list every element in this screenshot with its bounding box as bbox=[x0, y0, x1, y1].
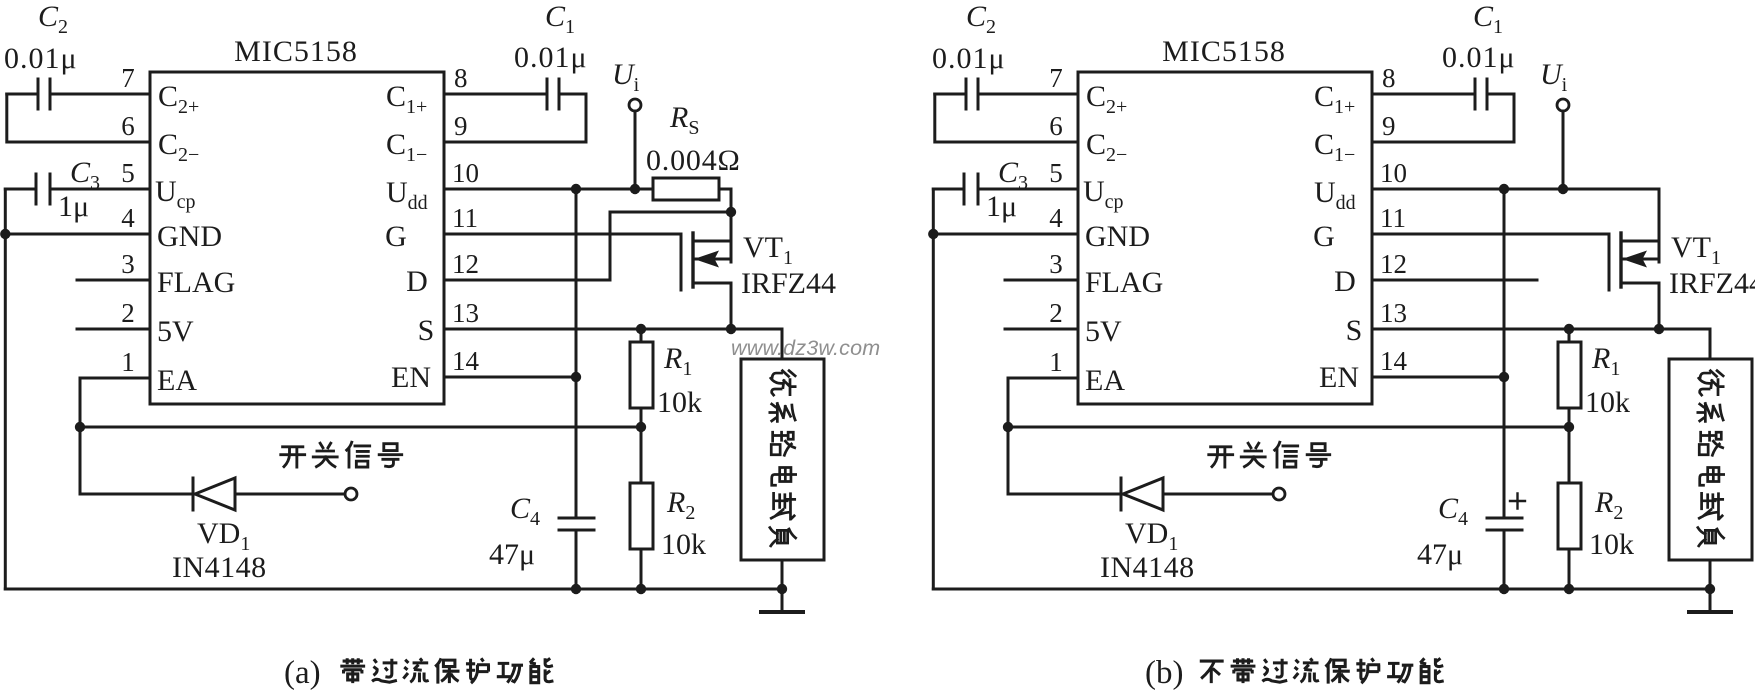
VT1 drain stub bbox=[693, 212, 731, 262]
wire load to rail bbox=[781, 560, 784, 589]
wire S line to load bbox=[1709, 329, 1712, 359]
svg-text:47μ: 47μ bbox=[1417, 538, 1463, 571]
wire C2 loop to pin 6 bbox=[935, 94, 1078, 142]
pin 12 D line bbox=[444, 279, 610, 282]
svg-text:5V: 5V bbox=[1085, 315, 1122, 348]
capacitor C4 with vertical wire bbox=[559, 189, 594, 589]
transistor Q2: MOSFET VT1 gate bar bbox=[1608, 234, 1611, 290]
svg-text:C1: C1 bbox=[1473, 0, 1503, 38]
capacitor C4 with vertical wire bbox=[1487, 189, 1522, 589]
svg-text:8: 8 bbox=[1382, 63, 1396, 93]
node S-R1 junction bbox=[636, 324, 646, 334]
pin 3 stub bbox=[1005, 279, 1078, 282]
svg-text:S: S bbox=[1346, 314, 1363, 347]
wire switching signal line bbox=[80, 426, 641, 429]
wire EA node down to diode bbox=[1008, 427, 1121, 494]
terminal switching signal bbox=[1273, 488, 1285, 500]
svg-text:C4: C4 bbox=[510, 492, 540, 530]
pin 7 stub bbox=[978, 93, 1078, 96]
pin 12 D stub bbox=[1372, 279, 1537, 282]
resistor R2 bbox=[640, 427, 643, 483]
svg-text:5: 5 bbox=[121, 158, 135, 188]
resistor R1 bbox=[1568, 329, 1571, 342]
resistor RS bbox=[653, 178, 719, 200]
svg-text:C4: C4 bbox=[1438, 492, 1468, 530]
capacitor C3 bbox=[933, 174, 1078, 204]
svg-text:Ui: Ui bbox=[1540, 58, 1568, 96]
svg-text:0.01μ: 0.01μ bbox=[1442, 41, 1516, 74]
svg-text:C1+: C1+ bbox=[1314, 80, 1355, 118]
svg-text:EN: EN bbox=[391, 361, 431, 394]
svg-text:FLAG: FLAG bbox=[157, 266, 235, 299]
svg-text:13: 13 bbox=[1380, 298, 1407, 328]
wire Ui down to Udd rail bbox=[1562, 111, 1565, 189]
svg-text:5: 5 bbox=[1049, 158, 1063, 188]
svg-text:14: 14 bbox=[1380, 346, 1408, 376]
svg-text:10k: 10k bbox=[661, 528, 706, 561]
node EN-C4 junction bbox=[571, 372, 581, 382]
svg-text:0.01μ: 0.01μ bbox=[932, 42, 1006, 75]
svg-text:R1: R1 bbox=[663, 342, 692, 380]
ground bbox=[781, 589, 784, 612]
svg-text:EA: EA bbox=[1085, 364, 1125, 397]
svg-text:IRFZ44: IRFZ44 bbox=[741, 267, 836, 300]
svg-text:VD1: VD1 bbox=[197, 517, 250, 555]
svg-text:12: 12 bbox=[452, 249, 479, 279]
svg-text:R1: R1 bbox=[1591, 342, 1620, 380]
op-amp U2: MIC5158 IC body bbox=[1078, 72, 1372, 404]
node C4-rail junction bbox=[571, 584, 581, 594]
resistor R1 bbox=[640, 329, 643, 342]
ground bbox=[1709, 589, 1712, 612]
diode VD2 bbox=[1120, 478, 1123, 510]
op-amp U1: MIC5158 IC body bbox=[150, 72, 444, 404]
pin 3 stub bbox=[77, 279, 150, 282]
svg-text:VD1: VD1 bbox=[1125, 517, 1178, 555]
transistor Q1: MOSFET VT1 gate bar bbox=[680, 234, 683, 290]
svg-text:C1−: C1− bbox=[386, 128, 427, 166]
node EA junction bbox=[75, 422, 85, 432]
node source-S junction bbox=[1654, 324, 1664, 334]
svg-text:10k: 10k bbox=[1589, 528, 1634, 561]
pin 13 S line bbox=[1372, 328, 1710, 331]
svg-text:IN4148: IN4148 bbox=[1100, 551, 1195, 584]
input terminal Ui bbox=[629, 99, 641, 111]
svg-text:4: 4 bbox=[1049, 203, 1063, 233]
svg-text:C1+: C1+ bbox=[386, 80, 427, 118]
svg-text:7: 7 bbox=[1049, 63, 1063, 93]
svg-text:MIC5158: MIC5158 bbox=[1162, 35, 1286, 68]
pin 1 EA wire bbox=[80, 378, 150, 427]
svg-text:GND: GND bbox=[157, 220, 222, 253]
node load-rail junction bbox=[777, 584, 787, 594]
capacitor C1 bbox=[1475, 79, 1514, 109]
svg-text:R2: R2 bbox=[1594, 486, 1623, 524]
wire EA node down to diode bbox=[80, 427, 193, 494]
polarity plus sign of C4 bbox=[1510, 494, 1525, 509]
svg-text:14: 14 bbox=[452, 346, 480, 376]
svg-text:10k: 10k bbox=[657, 386, 702, 419]
svg-text:Udd: Udd bbox=[386, 176, 428, 214]
node EA junction bbox=[1003, 422, 1013, 432]
svg-text:10: 10 bbox=[452, 158, 479, 188]
capacitor C2 bbox=[7, 79, 50, 109]
wire C1 loop to pin 9 bbox=[444, 94, 586, 142]
svg-text:2: 2 bbox=[1049, 298, 1063, 328]
VT1 channel bar bbox=[691, 233, 694, 287]
node S-R1 junction bbox=[1564, 324, 1574, 334]
wire Rs to drain node bbox=[719, 189, 731, 212]
node source-S junction bbox=[726, 324, 736, 334]
svg-text:Ui: Ui bbox=[612, 58, 640, 96]
svg-text:3: 3 bbox=[1049, 249, 1063, 279]
svg-text:C3: C3 bbox=[998, 156, 1028, 194]
svg-text:IN4148: IN4148 bbox=[172, 551, 267, 584]
svg-text:EN: EN bbox=[1319, 361, 1359, 394]
node GND-left junction bbox=[928, 229, 938, 239]
pin 11 G line bbox=[1372, 233, 1609, 236]
svg-text:(b): (b) bbox=[1145, 655, 1183, 691]
svg-text:www.dz3w.com: www.dz3w.com bbox=[731, 336, 880, 360]
wire bottom rail bbox=[5, 588, 782, 591]
svg-text:RS: RS bbox=[669, 101, 699, 139]
svg-text:C2+: C2+ bbox=[1086, 80, 1127, 118]
svg-text:C1−: C1− bbox=[1314, 128, 1355, 166]
pin 2 stub bbox=[1005, 328, 1078, 331]
node Ui-Udd junction bbox=[630, 184, 640, 194]
svg-text:10: 10 bbox=[1380, 158, 1407, 188]
svg-text:GND: GND bbox=[1085, 220, 1150, 253]
pin 14 EN line bbox=[1372, 376, 1504, 379]
node Udd-C4 junction bbox=[1499, 184, 1509, 194]
svg-text:Ucp: Ucp bbox=[155, 175, 196, 213]
resistor R2 bbox=[1568, 427, 1571, 483]
svg-text:0.01μ: 0.01μ bbox=[514, 41, 588, 74]
LEFT CIRCUIT (a) bbox=[0, 0, 836, 612]
terminal switching signal bbox=[345, 488, 357, 500]
svg-text:C2: C2 bbox=[966, 0, 996, 38]
VT1 body stub with arrow bbox=[1621, 258, 1659, 261]
svg-text:C2−: C2− bbox=[1086, 128, 1127, 166]
capacitor C1 bbox=[547, 79, 586, 109]
diode VD1 bbox=[192, 478, 195, 510]
svg-text:8: 8 bbox=[454, 63, 468, 93]
wire Ui down to Udd rail bbox=[634, 111, 637, 189]
svg-text:11: 11 bbox=[1380, 203, 1406, 233]
svg-text:0.01μ: 0.01μ bbox=[4, 42, 78, 75]
pin 14 EN line bbox=[444, 376, 576, 379]
wire C3 to ground node bbox=[932, 189, 935, 234]
svg-text:1: 1 bbox=[1049, 347, 1063, 377]
wire C3 to ground node bbox=[4, 189, 7, 234]
svg-text:G: G bbox=[1313, 220, 1335, 253]
wire Udd to Rs bbox=[576, 188, 653, 191]
input terminal Ui bbox=[1557, 99, 1569, 111]
svg-text:Udd: Udd bbox=[1314, 176, 1356, 214]
svg-text:D: D bbox=[406, 265, 428, 298]
svg-text:VT1: VT1 bbox=[1671, 231, 1721, 269]
pin 7 stub bbox=[50, 93, 150, 96]
svg-text:9: 9 bbox=[1382, 111, 1396, 141]
svg-text:10k: 10k bbox=[1585, 386, 1630, 419]
node R2-rail junction bbox=[1564, 584, 1574, 594]
svg-text:4: 4 bbox=[121, 203, 135, 233]
svg-text:FLAG: FLAG bbox=[1085, 266, 1163, 299]
svg-text:EA: EA bbox=[157, 364, 197, 397]
capacitor C2 bbox=[935, 79, 978, 109]
svg-text:MIC5158: MIC5158 bbox=[234, 35, 358, 68]
svg-text:9: 9 bbox=[454, 111, 468, 141]
svg-text:C2−: C2− bbox=[158, 128, 199, 166]
VT1 channel bar bbox=[1619, 233, 1622, 287]
wire diode to terminal bbox=[235, 493, 345, 496]
wire C1 loop to pin 9 bbox=[1372, 94, 1514, 142]
node drain junction bbox=[726, 207, 736, 217]
node Udd-C4 junction bbox=[571, 184, 581, 194]
svg-text:13: 13 bbox=[452, 298, 479, 328]
svg-text:Ucp: Ucp bbox=[1083, 175, 1124, 213]
load box (fu zai dian lu xi tong) bbox=[1669, 359, 1752, 560]
svg-text:(a): (a) bbox=[284, 655, 321, 691]
svg-text:47μ: 47μ bbox=[489, 538, 535, 571]
node R2-rail junction bbox=[636, 584, 646, 594]
svg-text:12: 12 bbox=[1380, 249, 1407, 279]
wire C2 loop to pin 6 bbox=[7, 94, 150, 142]
pin 8 line to C1 bbox=[444, 93, 547, 96]
label switching-signal (kai guan xin hao) bbox=[1209, 442, 1330, 467]
capacitor C3 bbox=[5, 174, 150, 204]
svg-text:7: 7 bbox=[121, 63, 135, 93]
pin 2 stub bbox=[77, 328, 150, 331]
load box (fu zai dian lu xi tong) bbox=[741, 359, 824, 560]
pin 10 Udd line bbox=[444, 188, 576, 191]
node EN-C4 junction bbox=[1499, 372, 1509, 382]
pin 8 line to C1 bbox=[1372, 93, 1475, 96]
pin 4 GND line bbox=[933, 233, 1078, 236]
wire S line to load bbox=[781, 329, 784, 359]
pin 4 GND line bbox=[5, 233, 150, 236]
VT1 source stub bbox=[1621, 283, 1659, 329]
svg-text:11: 11 bbox=[452, 203, 478, 233]
wire left rail bbox=[932, 234, 935, 589]
svg-text:G: G bbox=[385, 220, 407, 253]
pin 11 G line bbox=[444, 233, 681, 236]
svg-text:6: 6 bbox=[121, 111, 135, 141]
wire left rail bbox=[4, 234, 7, 589]
wire drain node to D pin bbox=[610, 212, 731, 280]
pin 13 S line bbox=[444, 328, 782, 331]
svg-text:S: S bbox=[418, 314, 435, 347]
pin 1 EA wire bbox=[1008, 378, 1078, 427]
node load-rail junction bbox=[1705, 584, 1715, 594]
svg-text:6: 6 bbox=[1049, 111, 1063, 141]
svg-text:D: D bbox=[1334, 265, 1356, 298]
svg-text:IRFZ44: IRFZ44 bbox=[1669, 267, 1755, 300]
node R1-R2 junction bbox=[636, 422, 646, 432]
svg-text:C2+: C2+ bbox=[158, 80, 199, 118]
svg-text:C2: C2 bbox=[38, 0, 68, 38]
wire switching signal line bbox=[1008, 426, 1569, 429]
svg-text:3: 3 bbox=[121, 249, 135, 279]
svg-text:5V: 5V bbox=[157, 315, 194, 348]
node R1-R2 junction bbox=[1564, 422, 1574, 432]
node Ui-Udd junction bbox=[1558, 184, 1568, 194]
label switching-signal (kai guan xin hao) bbox=[281, 442, 402, 467]
svg-text:R2: R2 bbox=[666, 486, 695, 524]
node C4-rail junction bbox=[1499, 584, 1509, 594]
svg-text:C3: C3 bbox=[70, 156, 100, 194]
svg-text:C1: C1 bbox=[545, 0, 575, 38]
svg-text:VT1: VT1 bbox=[743, 231, 793, 269]
pin 10 Udd line to drain bbox=[1372, 189, 1659, 262]
RIGHT CIRCUIT (b) bbox=[928, 0, 1755, 612]
VT1 drain stub bbox=[1621, 240, 1659, 243]
wire bottom rail bbox=[933, 588, 1710, 591]
wire load to rail bbox=[1709, 560, 1712, 589]
node GND-left junction bbox=[0, 229, 10, 239]
VT1 body stub with arrow bbox=[693, 258, 731, 261]
VT1 source stub bbox=[693, 283, 731, 329]
wire diode to terminal bbox=[1163, 493, 1273, 496]
svg-text:2: 2 bbox=[121, 298, 135, 328]
svg-text:1: 1 bbox=[121, 347, 135, 377]
svg-text:0.004Ω: 0.004Ω bbox=[646, 144, 741, 177]
svg-text:1μ: 1μ bbox=[58, 190, 89, 223]
svg-text:1μ: 1μ bbox=[986, 190, 1017, 223]
